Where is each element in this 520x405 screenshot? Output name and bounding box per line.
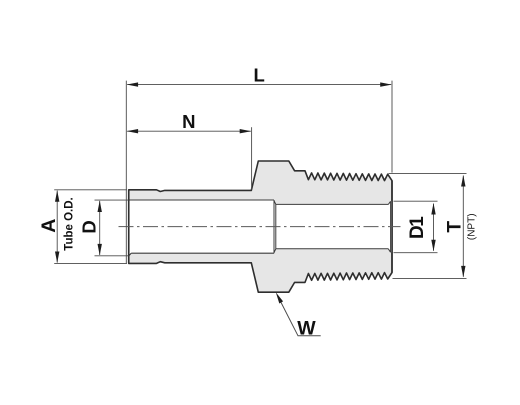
- N dimension line: [127, 130, 251, 132]
- centerline: [119, 226, 401, 228]
- svg-text:Tube O.D.: Tube O.D.: [63, 197, 75, 250]
- D dimension extension lines: [95, 200, 129, 256]
- T dimension line: [462, 176, 464, 277]
- svg-text:(NPT): (NPT): [466, 213, 477, 240]
- D1 dimension line: [433, 204, 435, 251]
- T dimension extension lines: [389, 174, 467, 279]
- bore transition step: [274, 200, 276, 253]
- svg-text:A: A: [38, 219, 60, 233]
- bore D1 lines (NPT end bore): [276, 201, 391, 252]
- W leader line: [278, 296, 321, 336]
- W leader arrowhead: [276, 292, 283, 303]
- A dimension extension lines: [54, 190, 127, 264]
- svg-text:W: W: [297, 318, 316, 340]
- N dimension extension line (right): [251, 127, 253, 189]
- D1 dimension extension lines: [394, 201, 438, 253]
- svg-text:D: D: [79, 220, 100, 233]
- svg-text:N: N: [182, 111, 195, 132]
- L dimension extension lines: [126, 81, 392, 264]
- right face line: [391, 181, 393, 273]
- svg-text:D1: D1: [407, 216, 428, 239]
- bore D lines (left counterbore): [129, 200, 274, 256]
- L dimension line: [127, 84, 391, 86]
- fitting body (gray cross-section silhouette): [129, 161, 392, 292]
- svg-text:L: L: [254, 64, 265, 85]
- svg-text:T: T: [445, 221, 466, 233]
- D dimension line: [99, 201, 101, 255]
- bore cavity silhouette (white): [129, 200, 392, 256]
- A dimension line: [56, 191, 58, 263]
- left face line: [128, 190, 130, 264]
